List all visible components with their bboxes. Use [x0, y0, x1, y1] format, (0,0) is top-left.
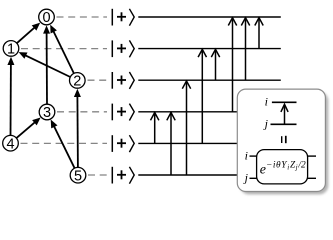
rotated equals sign: [282, 136, 286, 143]
legend gate box: [257, 150, 308, 184]
svg-text:4: 4: [6, 136, 14, 152]
graph node 3: [39, 104, 55, 121]
ket plus state qubit 2: [112, 72, 134, 89]
graph node 1: [3, 41, 19, 58]
ket plus state qubit 1: [112, 40, 134, 57]
dashed connector node 4: [21, 142, 108, 144]
graph node 0: [39, 9, 55, 26]
svg-text:0: 0: [42, 10, 50, 26]
graph edge 3 to 0: [43, 25, 50, 104]
legend wire j (top): [271, 123, 297, 125]
svg-text:i: i: [245, 149, 248, 163]
svg-text:5: 5: [74, 168, 82, 184]
wire qubit 2: [138, 79, 280, 81]
dashed connector node 2: [88, 79, 108, 81]
legend box: [237, 89, 325, 191]
wire qubit 1: [138, 48, 280, 50]
dashed connector node 0: [57, 16, 108, 18]
circuit arrow wire 5 to wire 2: [182, 81, 190, 175]
graph edge 2 to 1: [19, 52, 71, 77]
wire qubit 0: [138, 16, 280, 18]
wire qubit 4: [138, 142, 280, 144]
circuit arrow wire 3 to wire 0: [228, 18, 236, 112]
ket plus state qubit 5: [112, 167, 134, 184]
dashed connector node 1: [21, 48, 107, 50]
graph node 5: [70, 167, 86, 184]
dashed connector node 3: [57, 111, 107, 113]
circuit arrow wire 1 to wire 0: [255, 18, 263, 49]
svg-text:3: 3: [43, 105, 51, 121]
graph edge 5 to 3: [51, 120, 75, 169]
legend gate wire stubs: [250, 156, 317, 178]
circuit arrow wire 2 to wire 0: [241, 18, 249, 80]
svg-text:1: 1: [7, 42, 15, 58]
ket plus state qubit 3: [112, 104, 134, 121]
wire qubit 5: [138, 174, 280, 176]
graph edge 5 to 2: [74, 89, 81, 168]
graph node 4: [3, 135, 19, 152]
svg-text:2: 2: [73, 74, 81, 90]
circuit arrow wire 2 to wire 1: [211, 49, 219, 80]
graph edge 1 to 0: [17, 23, 40, 44]
graph node 2: [70, 73, 86, 90]
graph edge 4 to 1: [7, 57, 14, 136]
dashed connector node 5: [88, 174, 107, 176]
wire qubit 3: [138, 111, 280, 113]
ket plus state qubit 4: [112, 135, 134, 152]
circuit arrow wire 5 to wire 3: [167, 113, 175, 176]
graph edge 4 to 3: [16, 118, 40, 139]
legend wire i (top): [272, 101, 297, 103]
legend arrow i to j: [281, 104, 288, 124]
circuit arrow wire 4 to wire 3: [151, 113, 159, 144]
svg-text:i: i: [265, 94, 268, 108]
ket plus state qubit 0: [112, 9, 134, 26]
circuit arrow wire 4 to wire 1: [198, 49, 206, 143]
graph edge 2 to 0: [50, 25, 74, 74]
